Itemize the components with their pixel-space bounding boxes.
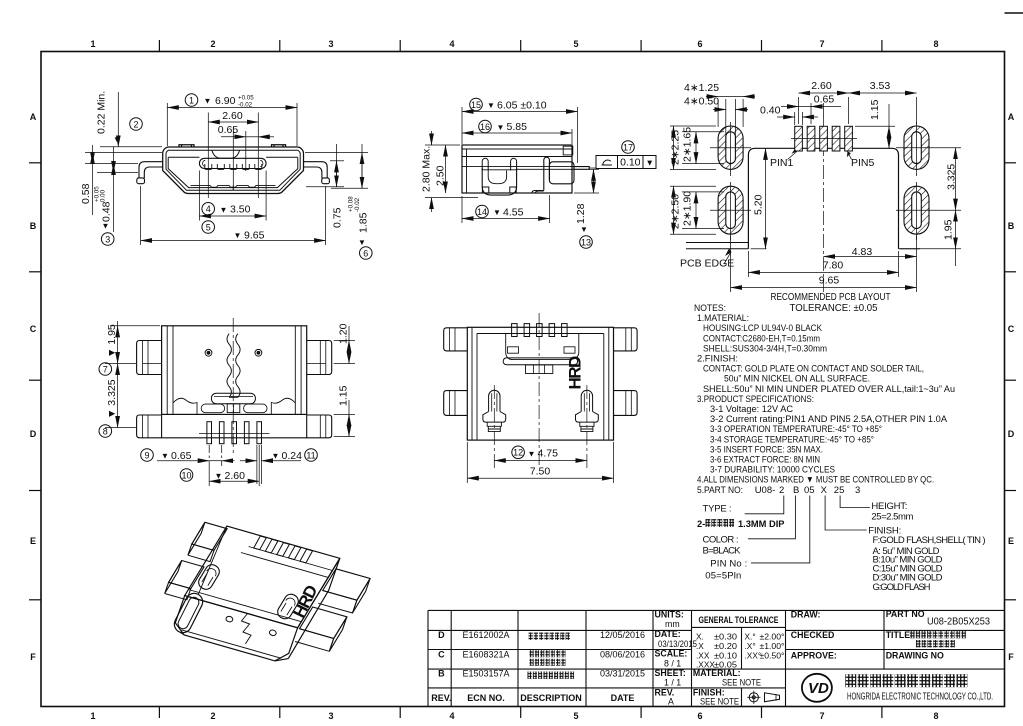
logo (802, 674, 832, 702)
svg-text:±2.00°: ±2.00° (760, 632, 785, 642)
right ext lines (305, 152, 368, 154)
TYPE chinese bold row (697, 519, 785, 529)
svg-text:0.10: 0.10 (620, 157, 641, 169)
dim 1.85 vertical (361, 144, 363, 188)
svg-text:B: B (1008, 221, 1015, 231)
svg-text:▼: ▼ (215, 472, 223, 481)
svg-text:3.325: 3.325 (946, 164, 958, 190)
wings (444, 328, 468, 351)
dim 9.65 (731, 287, 917, 289)
svg-text:5: 5 (573, 39, 578, 49)
top bumps (179, 145, 194, 147)
svg-text:▼ 1.95: ▼ 1.95 (106, 324, 118, 358)
svg-text:9: 9 (144, 450, 149, 460)
middle column texts (655, 610, 698, 707)
ext verticals pads left (717, 99, 719, 127)
svg-text:9.65: 9.65 (244, 229, 265, 241)
svg-text:A: A (1008, 112, 1015, 122)
svg-text:6.90: 6.90 (215, 95, 236, 107)
svg-text:-0.02: -0.02 (238, 102, 253, 109)
svg-text:PCB EDGE: PCB EDGE (680, 258, 734, 270)
iso rear step lines (241, 553, 328, 578)
view1 dim texts (80, 91, 372, 260)
dim 2.60 (799, 92, 849, 94)
centerline (823, 119, 825, 292)
iso mating ring outer (171, 590, 205, 635)
leader COLOR (748, 496, 796, 539)
centerlines (494, 313, 587, 468)
svg-text:HONGRIDA ELECTRONIC TECHNOLOGY: HONGRIDA ELECTRONIC TECHNOLOGY CO.,LTD. (847, 692, 993, 703)
frame column numbers bottom (90, 711, 938, 721)
svg-text:▼: ▼ (487, 101, 495, 110)
body outline (162, 326, 307, 415)
frame column ticks bottom (159, 707, 882, 719)
dim extension + lines view1 (85, 92, 368, 245)
svg-text:03/13/2015: 03/13/2015 (658, 639, 697, 649)
2.50 (445, 145, 447, 193)
dim 4x1.25 (706, 96, 718, 98)
left ext lines (100, 146, 162, 148)
svg-text:ECN NO.: ECN NO. (467, 693, 505, 703)
svg-text:C: C (1008, 324, 1015, 334)
iso front face (175, 596, 297, 661)
svg-text:▼: ▼ (220, 205, 228, 214)
pins (207, 422, 262, 444)
top-left wing (137, 341, 162, 375)
svg-text:▼: ▼ (580, 225, 588, 234)
svg-text:1: 1 (90, 39, 95, 49)
svg-text:mm: mm (665, 619, 680, 629)
svg-text:B=BLACK: B=BLACK (703, 545, 742, 556)
svg-text:VD: VD (808, 680, 829, 697)
bottom-right wing (307, 415, 332, 438)
svg-text:D: D (438, 630, 445, 640)
iso hook left (196, 562, 221, 591)
bottom plate (162, 414, 307, 437)
side view texts (421, 98, 657, 248)
svg-text:D: D (30, 429, 37, 439)
iso ring-to-body lines (198, 526, 227, 594)
title chinese blobs (910, 631, 915, 639)
svg-text:2∗2.25: 2∗2.25 (670, 130, 682, 165)
top-right notch (563, 146, 573, 155)
svg-text:0.24: 0.24 (282, 450, 303, 462)
svg-text:11: 11 (306, 450, 315, 460)
centerline (232, 318, 234, 455)
svg-text:APPROVE:: APPROVE: (791, 651, 837, 661)
dim 4.83 (824, 256, 917, 258)
svg-text:16: 16 (480, 122, 490, 132)
mount pad top-left (710, 126, 751, 169)
svg-text:G:GOLD FLASH: G:GOLD FLASH (873, 582, 931, 593)
svg-text:2: 2 (210, 39, 215, 49)
svg-text:DESCRIPTION: DESCRIPTION (520, 693, 582, 703)
dim 5.20 (765, 148, 767, 249)
svg-text:B: B (793, 485, 799, 496)
body outline (467, 327, 613, 440)
svg-text:8: 8 (103, 426, 108, 436)
iso front face holes (225, 616, 233, 623)
svg-text:2: 2 (779, 485, 784, 496)
svg-text:7.50: 7.50 (530, 465, 551, 477)
1.28 (589, 168, 599, 170)
iso hook right (275, 592, 300, 621)
svg-text:X.: X. (696, 632, 704, 642)
svg-text:3.50: 3.50 (230, 204, 251, 216)
center latch cluster (526, 365, 553, 374)
svg-text:▼: ▼ (493, 208, 501, 217)
svg-text:2.80 Max.: 2.80 Max. (421, 146, 433, 192)
interior shell seam (477, 333, 604, 335)
svg-text:6: 6 (697, 711, 702, 721)
svg-text:14: 14 (477, 207, 487, 217)
right J-hook (576, 390, 599, 431)
rear L-lead (532, 157, 549, 193)
iso right side face (288, 558, 340, 658)
svg-text:PART NO: PART NO (886, 609, 925, 619)
right solder leg (304, 162, 328, 179)
svg-text:7: 7 (819, 39, 824, 49)
svg-text:4.83: 4.83 (852, 246, 873, 258)
svg-text:6.05 ±0.10: 6.05 ±0.10 (497, 99, 547, 111)
svg-text:2∗1.65: 2∗1.65 (682, 127, 694, 162)
2.80 max (425, 144, 460, 146)
svg-text:U08-: U08- (755, 485, 776, 496)
dim 2.60 line (208, 121, 258, 123)
svg-text:4∗0.50: 4∗0.50 (684, 96, 719, 108)
pin center extensions (207, 113, 209, 199)
svg-text:▼: ▼ (272, 452, 280, 461)
svg-text:▼: ▼ (102, 222, 110, 231)
svg-text:1.28: 1.28 (575, 203, 587, 224)
component outline (748, 148, 898, 249)
svg-text:E1612002A: E1612002A (462, 630, 509, 640)
shell holes (205, 349, 212, 356)
svg-text:E: E (1008, 536, 1014, 546)
svg-text:05=5Pln: 05=5Pln (705, 570, 741, 581)
svg-text:17: 17 (623, 142, 633, 152)
svg-text:1.15: 1.15 (338, 385, 350, 406)
svg-text:TOLERANCE: ±0.05: TOLERANCE: ±0.05 (790, 302, 878, 314)
svg-text:GENERAL TOLERANCE: GENERAL TOLERANCE (699, 615, 779, 625)
svg-text:1.95: 1.95 (943, 219, 955, 240)
row lines (428, 629, 692, 631)
svg-text:5: 5 (206, 222, 211, 232)
svg-text:05: 05 (804, 485, 815, 496)
frame column numbers top (90, 39, 938, 49)
svg-text:3: 3 (328, 39, 333, 49)
svg-text:±0.20: ±0.20 (714, 641, 737, 651)
svg-text:4.55: 4.55 (503, 206, 524, 218)
svg-text:5: 5 (573, 711, 578, 721)
4.55 (461, 196, 463, 223)
svg-text:0.65: 0.65 (218, 124, 239, 136)
svg-text:2-: 2- (697, 519, 705, 529)
svg-text:0.65: 0.65 (814, 94, 835, 106)
front J-lead (482, 158, 488, 170)
svg-text:5.PART NO:: 5.PART NO: (697, 485, 743, 496)
svg-text:DRAW:: DRAW: (791, 610, 821, 620)
svg-text:SCALE:: SCALE: (655, 649, 688, 659)
svg-text:±0.50°: ±0.50° (760, 651, 785, 661)
svg-text:1.20: 1.20 (338, 323, 350, 344)
svg-text:±1.00°: ±1.00° (760, 641, 785, 651)
svg-text:3: 3 (105, 234, 110, 244)
svg-text:5.20: 5.20 (753, 194, 765, 215)
iso top face (185, 526, 340, 628)
foot plate (482, 187, 516, 193)
bottom view dims (105, 321, 355, 486)
svg-text:1.85: 1.85 (358, 212, 370, 233)
svg-text:1: 1 (90, 711, 95, 721)
svg-text:HEIGHT:: HEIGHT: (871, 501, 907, 512)
0.24 (240, 460, 257, 462)
dim 3.53 (849, 92, 917, 94)
svg-text:PIN1: PIN1 (770, 157, 794, 169)
svg-text:C: C (30, 324, 37, 334)
svg-text:5.85: 5.85 (507, 121, 528, 133)
svg-text:X: X (821, 485, 828, 496)
dim 0.22 vertical (117, 92, 119, 147)
svg-text:-0.02: -0.02 (354, 197, 361, 212)
svg-text:A: A (30, 112, 37, 122)
svg-text:10: 10 (181, 470, 191, 480)
svg-text:13: 13 (581, 237, 591, 247)
svg-text:4: 4 (449, 39, 454, 49)
top-right wing (307, 341, 332, 375)
tongue (199, 158, 266, 168)
svg-text:A: A (668, 696, 674, 706)
frame row ticks right (1005, 163, 1017, 600)
svg-text:DATE: DATE (611, 693, 635, 703)
svg-text:0.58: 0.58 (80, 183, 92, 204)
dim 3.50 (198, 171, 200, 221)
revision table texts (431, 630, 645, 703)
svg-text:F:GOLD FLASH,SHELL( TIN ): F:GOLD FLASH,SHELL( TIN ) (873, 535, 986, 546)
callout 1 (185, 94, 198, 107)
svg-text:0.00: 0.00 (100, 189, 107, 202)
frame column ticks top (159, 40, 882, 52)
scoop double line (212, 150, 240, 158)
0.65 (157, 460, 209, 462)
svg-text:MATERIAL:: MATERIAL: (693, 668, 741, 678)
svg-text:6: 6 (363, 248, 368, 258)
svg-text:2∗2.50: 2∗2.50 (670, 194, 682, 229)
dim 6.90 line (167, 107, 297, 109)
iso wing front-right (300, 607, 347, 639)
svg-text:▼: ▼ (358, 238, 366, 247)
svg-text:1 / 1: 1 / 1 (664, 677, 681, 687)
body outline (462, 145, 572, 193)
top pins (512, 324, 567, 337)
svg-text:8: 8 (933, 711, 938, 721)
svg-text:2.60: 2.60 (225, 470, 246, 482)
pin pads (791, 126, 857, 151)
pin1 leader (788, 152, 797, 160)
mount pad top-right (896, 126, 961, 169)
dim 0.48 vertical (113, 147, 115, 232)
frame row letters left (30, 112, 37, 662)
svg-text:▼: ▼ (646, 158, 654, 168)
svg-text:2: 2 (210, 711, 215, 721)
svg-text:HRD: HRD (566, 356, 585, 390)
svg-text:±0.30: ±0.30 (714, 632, 737, 642)
svg-text:.X°: .X° (745, 641, 756, 651)
dim 0.65 (781, 106, 799, 108)
frame row ticks left (29, 163, 41, 600)
svg-text:15: 15 (471, 100, 481, 110)
leader FINISH (825, 496, 867, 531)
svg-text:0.40: 0.40 (760, 105, 781, 117)
ext verticals pins (798, 97, 800, 124)
svg-text:REV.: REV. (431, 693, 451, 703)
mating face bar (503, 358, 577, 365)
cavity outline (168, 158, 298, 188)
svg-text:2.60: 2.60 (811, 80, 832, 92)
callout 5 / 9.65 (202, 221, 215, 234)
svg-text:2.60: 2.60 (222, 110, 243, 122)
svg-text:PIN5: PIN5 (851, 157, 875, 169)
svg-text:1.15: 1.15 (869, 99, 881, 120)
leader TYPE (745, 496, 784, 514)
svg-text:12/05/2016: 12/05/2016 (600, 630, 645, 640)
projection symbols (747, 691, 779, 704)
svg-text:F: F (30, 652, 36, 662)
svg-text:E: E (30, 536, 36, 546)
leader PIN No (751, 496, 810, 563)
flatness callout box (622, 141, 635, 154)
leader to flatness box (589, 167, 596, 169)
iso wing front-left (169, 561, 204, 589)
dim 1.15 (855, 125, 895, 127)
svg-text:12: 12 (513, 448, 523, 458)
general tolerance (696, 615, 785, 670)
svg-text:▼ 3.325: ▼ 3.325 (106, 379, 118, 419)
iso wing back-left (192, 522, 227, 550)
revision chinese desc blobs (528, 633, 575, 679)
bottom-left wing (137, 415, 162, 438)
svg-text:0.65: 0.65 (171, 450, 192, 462)
svg-text:08/06/2016: 08/06/2016 (600, 650, 645, 660)
interior horizontals (462, 156, 572, 158)
iso wing back-right (323, 569, 370, 600)
svg-text:▼: ▼ (234, 231, 242, 240)
iso bottom right edge (275, 659, 288, 661)
iso rear pins (254, 536, 267, 550)
top view dims (467, 442, 613, 483)
dim 0.75 vertical (336, 144, 338, 187)
dim 0.65 line (221, 136, 246, 138)
svg-text:7: 7 (819, 711, 824, 721)
frame row letters right (1008, 112, 1015, 662)
svg-text:1.3MM DIP: 1.3MM DIP (738, 519, 785, 529)
svg-text:▼: ▼ (113, 135, 121, 144)
dim 3.325 / 1.95 (955, 148, 957, 211)
dim 9.65 (140, 186, 142, 245)
svg-text:B: B (438, 669, 445, 679)
svg-text:8 / 1: 8 / 1 (664, 658, 681, 668)
left J-hook (483, 390, 506, 431)
svg-text:X.°: X.° (745, 632, 756, 642)
dim 7.80 (747, 251, 749, 277)
svg-text:DATE:: DATE: (655, 629, 681, 639)
svg-text:3.53: 3.53 (870, 80, 891, 92)
svg-text:CHECKED: CHECKED (791, 630, 835, 640)
shell outer outline (137, 145, 330, 194)
pcb edge line (686, 242, 748, 244)
svg-text:0.75: 0.75 (332, 207, 344, 228)
cavity floor with dents (191, 185, 276, 187)
bottom view texts (99, 323, 350, 481)
svg-text:9.65: 9.65 (819, 275, 840, 287)
dim 4x0.50 (713, 109, 726, 111)
svg-text:▼: ▼ (161, 452, 169, 461)
svg-text:SEE NOTE: SEE NOTE (700, 696, 739, 706)
svg-text:25=2.5mm: 25=2.5mm (871, 512, 913, 523)
iso front hem line (181, 630, 281, 659)
svg-text:7.80: 7.80 (823, 260, 844, 272)
tongue base bar (211, 393, 255, 404)
callout 2 / 0.22 Min (130, 118, 143, 131)
svg-text:25: 25 (834, 485, 845, 496)
left solder leg (139, 162, 163, 179)
shell inner outline (166, 150, 300, 190)
left pad dims (670, 125, 716, 127)
svg-text:0.48: 0.48 (101, 201, 113, 222)
pcb edge leader (724, 252, 731, 264)
side view dims (425, 107, 599, 223)
svg-text:4∗1.25: 4∗1.25 (684, 82, 719, 94)
svg-text:U08-2B05X253: U08-2B05X253 (927, 616, 990, 628)
table outline lines (428, 609, 1005, 611)
mount pad bottom-left (710, 186, 751, 234)
svg-text:2: 2 (133, 119, 138, 129)
svg-text:4: 4 (449, 711, 454, 721)
svg-text:▼: ▼ (528, 449, 536, 458)
svg-text:2.50: 2.50 (435, 165, 447, 186)
svg-text:B: B (30, 221, 37, 231)
pin5 leader (848, 152, 852, 160)
2.60 (208, 466, 210, 486)
iso front seam zigzag (242, 614, 252, 644)
callout 4 / 3.50 (202, 203, 215, 216)
svg-text:.X: .X (696, 641, 704, 651)
svg-text:C: C (438, 650, 445, 660)
company chinese name blobs (845, 674, 856, 687)
svg-text:COLOR :: COLOR : (703, 534, 739, 545)
iso shell fold line (188, 590, 301, 622)
svg-text:03/31/2015: 03/31/2015 (600, 669, 645, 679)
svg-text:▼: ▼ (204, 97, 212, 106)
material / finish (693, 668, 761, 706)
svg-text:DRAWING NO: DRAWING NO (886, 651, 944, 661)
svg-text:3: 3 (855, 485, 860, 496)
svg-text:F: F (1008, 652, 1014, 662)
svg-text:2∗1.90: 2∗1.90 (682, 191, 694, 226)
dim 0.40 (777, 116, 795, 118)
solder tail (572, 167, 589, 170)
svg-text:TITLE:: TITLE: (886, 630, 913, 640)
pcb dims (670, 93, 961, 292)
draw/checked/approve (791, 609, 944, 661)
svg-text:4: 4 (206, 204, 211, 214)
contacts (205, 164, 262, 169)
svg-text:E1608321A: E1608321A (462, 650, 509, 660)
svg-text:7: 7 (103, 364, 108, 374)
svg-text:+0.05: +0.05 (238, 95, 254, 102)
svg-text:1: 1 (189, 95, 194, 105)
svg-text:6: 6 (697, 39, 702, 49)
